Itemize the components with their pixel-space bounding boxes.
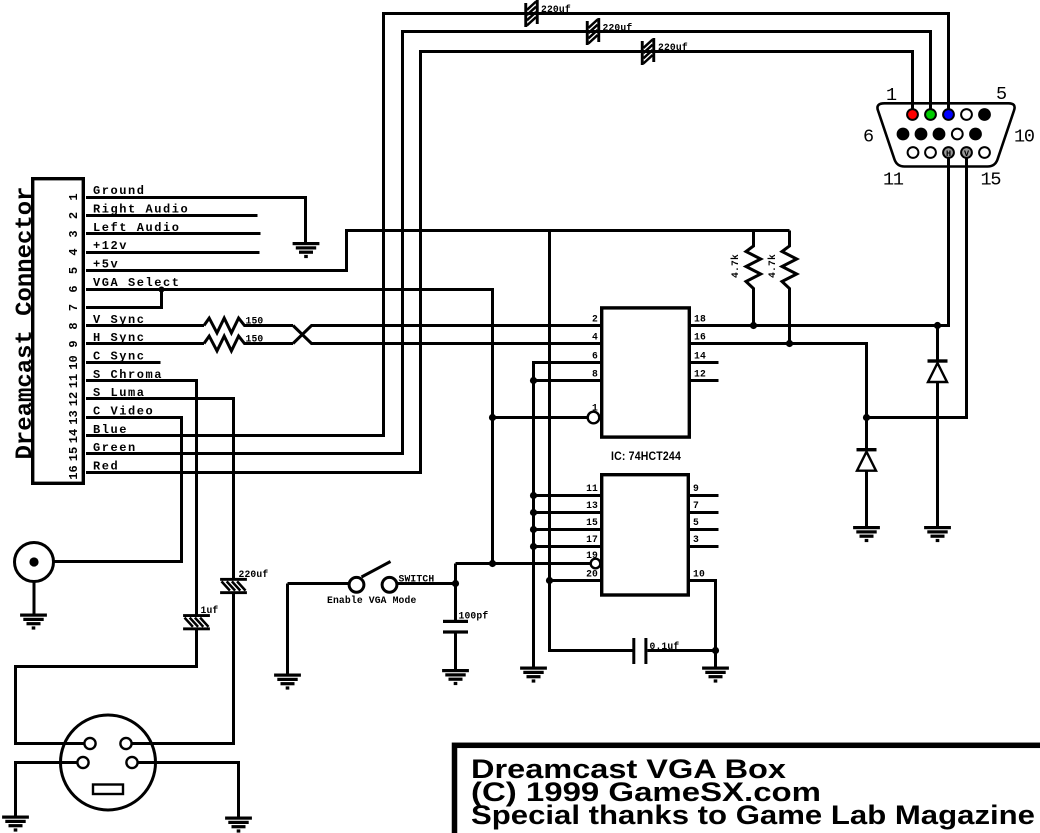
- svg-text:7: 7: [67, 304, 81, 311]
- wire 0.1uf to pin10 rail: [648, 649, 716, 652]
- svg-text:220uf: 220uf: [603, 23, 633, 34]
- wire top green (pin15 to VGA green): [86, 32, 931, 454]
- wire pin9 stub: [690, 494, 719, 497]
- svg-text:17: 17: [586, 534, 598, 545]
- VGA pin row3 with H V: [908, 147, 990, 158]
- wire Ground net: [86, 198, 306, 243]
- wire pin15: [534, 528, 601, 531]
- diode D1: [936, 326, 939, 362]
- svg-text:6: 6: [592, 351, 598, 362]
- wire crossover X: [293, 326, 600, 344]
- wire top red (pin16 to VGA red): [86, 52, 913, 473]
- wire pin7 stub: [86, 290, 162, 308]
- svg-text:C Video: C Video: [93, 405, 154, 419]
- ground switch left: [274, 674, 301, 690]
- DIN key slot: [93, 785, 123, 795]
- svg-text:12: 12: [67, 392, 81, 406]
- svg-text:5: 5: [67, 267, 81, 274]
- wire VGA V pin net: [867, 158, 967, 418]
- svg-text:11: 11: [883, 170, 904, 191]
- svg-text:9: 9: [693, 483, 699, 494]
- svg-text:4: 4: [592, 332, 598, 343]
- svg-text:150: 150: [246, 334, 264, 345]
- title block: [455, 745, 1040, 833]
- wire +12v: [86, 251, 260, 254]
- wire top blue (pin14 to VGA blue): [86, 14, 949, 436]
- svg-text:1: 1: [67, 193, 81, 200]
- wire RCA to ground: [33, 582, 36, 614]
- U2 pin number labels: [586, 483, 598, 580]
- svg-text:1uf: 1uf: [201, 605, 219, 616]
- wire V Sync: [86, 324, 204, 327]
- svg-text:6: 6: [67, 285, 81, 292]
- wire pin1 enable: [493, 416, 588, 419]
- wire C Sync stub: [86, 361, 161, 364]
- DIN connector J2: [61, 715, 156, 810]
- svg-text:7: 7: [693, 500, 699, 511]
- svg-text:IC: 74HCT244: IC: 74HCT244: [611, 451, 681, 463]
- svg-text:2: 2: [67, 212, 81, 219]
- DIN pin3: [77, 757, 88, 768]
- ground D2: [853, 526, 880, 542]
- wire pin19 enable: [456, 562, 591, 565]
- svg-text:12: 12: [694, 369, 706, 380]
- IC U1 74HCT244 upper half: [602, 308, 690, 437]
- wire 100pf to ground: [454, 633, 457, 669]
- svg-text:5: 5: [693, 517, 699, 528]
- svg-text:15: 15: [67, 447, 81, 461]
- node tie junctions: [530, 492, 537, 499]
- svg-text:16: 16: [694, 332, 706, 343]
- svg-text:VGA Select: VGA Select: [93, 276, 181, 290]
- svg-text:H: H: [946, 149, 951, 159]
- svg-text:1: 1: [592, 403, 598, 414]
- ground 100pf: [442, 669, 469, 685]
- svg-text:9: 9: [67, 340, 81, 347]
- VGA connector DB15 outline: [877, 103, 1014, 166]
- svg-text:V Sync: V Sync: [93, 313, 146, 327]
- svg-text:100pf: 100pf: [459, 611, 489, 622]
- svg-text:15: 15: [981, 170, 1001, 191]
- node R2 bottom junction: [786, 340, 793, 347]
- wire input tie rail to ground: [532, 381, 535, 667]
- wire DIN pin4 to ground: [138, 763, 239, 817]
- svg-text:10: 10: [1014, 127, 1034, 148]
- IC U1 74HCT244 lower half: [602, 475, 689, 595]
- capacitor 1uf: [183, 614, 210, 630]
- ground input tie rail: [520, 667, 547, 683]
- svg-text:6: 6: [863, 127, 873, 148]
- wire 1uf to DIN pin1: [16, 630, 197, 744]
- wire pin5 stub: [690, 528, 719, 531]
- svg-text:19: 19: [586, 550, 598, 561]
- ground DIN left: [2, 816, 29, 832]
- node pin20 junction: [546, 577, 553, 584]
- wire pin13: [534, 511, 601, 514]
- svg-text:20: 20: [586, 569, 598, 580]
- wire pin18 to VGA H: [691, 158, 949, 326]
- wire DIN pin3 to ground: [16, 763, 78, 816]
- svg-text:13: 13: [67, 410, 81, 424]
- wire pin14 stub: [690, 361, 719, 364]
- node switch junction: [452, 580, 459, 587]
- DIN pin2: [120, 738, 131, 749]
- wire +5v vertical rail: [550, 231, 634, 651]
- resistor 150 (H Sync): [204, 336, 293, 351]
- wire 220uf to DIN pin2: [132, 594, 234, 744]
- pin19 inverter bubble: [591, 559, 601, 569]
- svg-text:10: 10: [67, 355, 81, 369]
- wire VGA Select net: [86, 290, 493, 564]
- capacitor 100pf: [443, 620, 468, 623]
- wire pin11: [534, 494, 601, 497]
- svg-text:2: 2: [592, 314, 598, 325]
- ground symbol pin1: [293, 242, 320, 258]
- svg-text:4: 4: [67, 248, 81, 255]
- wire pin16 to diode D2: [691, 344, 867, 450]
- svg-text:4.7k: 4.7k: [767, 254, 778, 278]
- capacitor C1 220uf: [524, 0, 538, 27]
- wire S Chroma net: [86, 381, 197, 616]
- wire pin17: [534, 545, 601, 548]
- svg-text:13: 13: [586, 500, 598, 511]
- VGA pin row1: red green blue open black: [907, 109, 990, 120]
- svg-text:15: 15: [586, 517, 598, 528]
- svg-text:Left Audio: Left Audio: [93, 221, 181, 235]
- svg-text:Special thanks to Game Lab Mag: Special thanks to Game Lab Magazine: [471, 800, 1035, 830]
- switch lever: [362, 562, 391, 578]
- node pin7 junction: [159, 287, 165, 293]
- capacitor 0.1uf: [632, 638, 635, 664]
- svg-text:5: 5: [996, 84, 1006, 105]
- capacitor C3 220uf: [641, 38, 655, 65]
- diode D2: [857, 448, 877, 451]
- svg-text:Blue: Blue: [93, 423, 128, 437]
- resistor 150 (V Sync): [204, 318, 293, 333]
- ground D1: [924, 526, 951, 542]
- svg-text:H Sync: H Sync: [93, 331, 146, 345]
- svg-text:1: 1: [886, 85, 897, 106]
- RCA jack J1: [15, 543, 54, 582]
- svg-text:220uf: 220uf: [541, 4, 571, 15]
- svg-text:10: 10: [693, 569, 705, 580]
- resistor R2 4.7k: [782, 231, 797, 344]
- wire pin10 to ground: [690, 581, 716, 667]
- svg-text:C Sync: C Sync: [93, 350, 146, 364]
- svg-text:11: 11: [67, 374, 81, 388]
- svg-text:16: 16: [67, 465, 81, 479]
- wire pin12 stub: [690, 379, 719, 382]
- wire Right Audio: [86, 214, 258, 217]
- wire +5v net: [86, 231, 790, 271]
- svg-text:V: V: [964, 149, 970, 159]
- svg-text:Red: Red: [93, 460, 119, 474]
- wire pin6 pin8 tie: [534, 363, 601, 381]
- svg-text:14: 14: [67, 429, 81, 443]
- svg-text:Green: Green: [93, 441, 137, 455]
- svg-text:8: 8: [592, 369, 598, 380]
- svg-text:Right Audio: Right Audio: [93, 203, 189, 217]
- svg-text:+12v: +12v: [93, 239, 128, 253]
- svg-text:8: 8: [67, 322, 81, 329]
- svg-text:150: 150: [246, 316, 264, 327]
- ground RCA: [20, 614, 47, 630]
- node pin6/8 junction: [530, 377, 537, 384]
- pin numbers 1-16: [67, 193, 81, 479]
- capacitor 220uf (S Luma): [220, 578, 247, 594]
- wire pin20: [550, 579, 601, 582]
- svg-text:Enable VGA Mode: Enable VGA Mode: [327, 595, 416, 606]
- ground pin10: [702, 667, 729, 683]
- node R1 bottom junction: [750, 322, 757, 329]
- svg-text:220uf: 220uf: [658, 42, 688, 53]
- svg-text:S Chroma: S Chroma: [93, 368, 163, 382]
- VGA pin labels: [863, 84, 1034, 191]
- node VGA select end junction: [489, 560, 496, 567]
- svg-text:3: 3: [693, 534, 699, 545]
- wire S Luma net: [86, 399, 234, 580]
- capacitor C2 220uf: [586, 18, 600, 45]
- svg-text:Dreamcast Connector: Dreamcast Connector: [12, 187, 39, 460]
- svg-text:S Luma: S Luma: [93, 386, 146, 400]
- pin1 inverter bubble: [588, 412, 600, 424]
- svg-text:Ground: Ground: [93, 184, 146, 198]
- DIN pin4: [126, 757, 137, 768]
- ground DIN right: [225, 817, 252, 833]
- svg-text:3: 3: [67, 230, 81, 237]
- svg-text:SWITCH: SWITCH: [399, 574, 435, 585]
- DIN pin1: [84, 738, 95, 749]
- svg-text:18: 18: [694, 314, 706, 325]
- U1 pin number labels: [592, 314, 598, 414]
- node pin1 branch junction: [489, 414, 496, 421]
- wire C Video net: [53, 418, 182, 562]
- node D1 junction: [934, 322, 941, 329]
- node 0.1uf junction: [712, 647, 719, 654]
- svg-text:4.7k: 4.7k: [730, 254, 741, 278]
- svg-text:+5v: +5v: [93, 258, 119, 272]
- switch SW1 contacts: [349, 577, 364, 592]
- switch wires: [288, 564, 456, 674]
- Dreamcast connector box: [33, 179, 84, 484]
- wire pin7 stub: [690, 511, 719, 514]
- svg-text:11: 11: [586, 483, 598, 494]
- svg-text:14: 14: [694, 351, 706, 362]
- node D2 junction: [863, 414, 870, 421]
- wire pin3 stub: [690, 545, 719, 548]
- wire Left Audio: [86, 232, 261, 235]
- VGA pin row2: [898, 129, 981, 140]
- svg-text:220uf: 220uf: [239, 569, 269, 580]
- resistor R1 4.7k: [746, 231, 761, 326]
- wire H Sync: [86, 342, 204, 345]
